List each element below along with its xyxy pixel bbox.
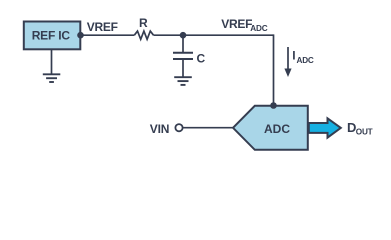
REF IC U1: [24, 22, 81, 50]
capacitor C: [182, 35, 184, 52]
svg-text:ADC: ADC: [264, 122, 290, 136]
VIN input terminal: [175, 124, 182, 131]
D_OUT bus arrow: [309, 118, 341, 137]
node: ADC reference pin junction: [270, 102, 277, 109]
svg-text:VREF: VREF: [87, 20, 118, 34]
svg-text:I: I: [292, 49, 295, 63]
ADC U2: [233, 106, 308, 150]
resistor R: [134, 31, 153, 39]
wire: REF IC to ground: [51, 49, 53, 74]
svg-text:OUT: OUT: [356, 128, 373, 137]
svg-text:VREF: VREF: [221, 17, 252, 31]
ground (REF IC): [43, 74, 61, 82]
wire: resistor to corner: [154, 34, 274, 36]
svg-text:R: R: [139, 16, 148, 30]
I_ADC current arrow: [287, 47, 289, 70]
ground (capacitor): [174, 77, 192, 85]
wire: VIN to ADC: [183, 127, 233, 129]
svg-text:C: C: [197, 52, 206, 66]
svg-text:REF IC: REF IC: [32, 28, 71, 42]
node: capacitor junction: [180, 32, 187, 39]
node: REF IC output junction: [77, 32, 84, 39]
wire: REF IC to resistor R: [81, 34, 135, 36]
wire: corner down to ADC: [273, 34, 275, 105]
svg-text:ADC: ADC: [250, 24, 267, 33]
svg-text:VIN: VIN: [150, 122, 169, 136]
svg-text:ADC: ADC: [297, 56, 314, 65]
